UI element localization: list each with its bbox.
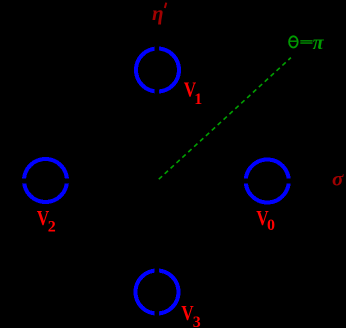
label V1 xyxy=(184,79,197,102)
horizontal propagator line (black on black, creates circle gaps) xyxy=(0,179,330,184)
label V0 subscript 0 xyxy=(267,217,275,234)
label V3 subscript 3 xyxy=(193,314,201,328)
vertex circle V3 (bottom) xyxy=(136,271,179,314)
label V3 xyxy=(181,303,194,326)
svg-text:η: η xyxy=(152,1,164,25)
svg-text:3: 3 xyxy=(193,314,201,328)
svg-text:σ: σ xyxy=(332,166,344,190)
green dashed angle line xyxy=(159,58,291,180)
vertex circle V1 (top) xyxy=(136,49,179,92)
label V2 subscript 2 xyxy=(48,219,56,236)
label Theta xyxy=(289,36,298,47)
svg-text:π: π xyxy=(313,32,325,54)
label equals sign xyxy=(300,40,312,41)
label V2 xyxy=(37,208,50,231)
label V1 subscript 1 xyxy=(194,91,202,108)
label V0 xyxy=(256,208,269,231)
svg-text:0: 0 xyxy=(267,217,275,234)
svg-text:1: 1 xyxy=(194,91,202,108)
label eta prime mark xyxy=(165,3,167,8)
vertex circle V0 (right) xyxy=(246,160,289,203)
svg-text:2: 2 xyxy=(48,219,56,236)
vertical propagator line (black on black, creates circle gaps) xyxy=(155,28,160,328)
vertex circle V2 (left) xyxy=(24,159,67,202)
